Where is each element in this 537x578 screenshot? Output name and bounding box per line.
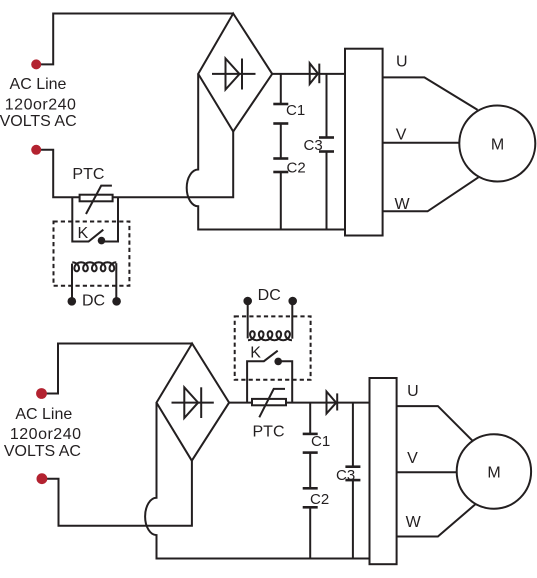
svg-text:DC: DC [258,287,281,304]
svg-text:M: M [487,464,500,481]
svg-text:U: U [407,383,419,400]
svg-text:V: V [407,450,418,467]
svg-text:V: V [396,127,407,144]
svg-text:DC: DC [82,293,105,310]
svg-text:VOLTS AC: VOLTS AC [4,443,81,460]
svg-text:VOLTS AC: VOLTS AC [0,113,77,130]
svg-text:PTC: PTC [253,423,285,440]
svg-text:C2: C2 [310,491,329,508]
svg-text:120or240: 120or240 [5,96,77,113]
svg-text:C1: C1 [286,102,305,119]
svg-text:C3: C3 [336,467,355,484]
svg-text:W: W [395,196,411,213]
svg-text:K: K [250,344,261,361]
svg-text:M: M [491,136,504,153]
svg-text:C2: C2 [287,159,306,176]
svg-text:PTC: PTC [72,166,104,183]
svg-text:C3: C3 [304,137,323,154]
svg-text:W: W [406,514,422,531]
svg-text:U: U [396,54,408,71]
svg-text:AC Line: AC Line [15,406,72,423]
svg-text:K: K [78,225,89,242]
svg-text:120or240: 120or240 [10,426,82,443]
svg-text:AC Line: AC Line [10,76,67,93]
svg-text:C1: C1 [311,433,330,450]
